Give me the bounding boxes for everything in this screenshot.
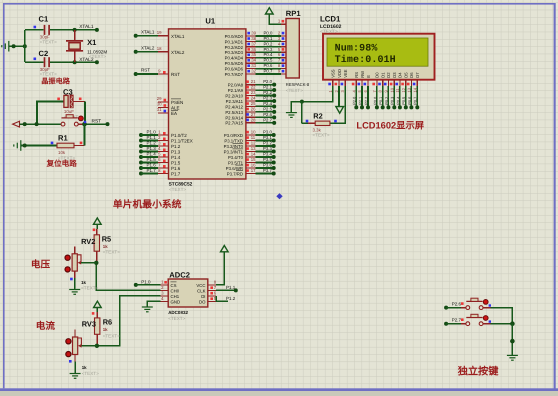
svg-text:R6: R6 (103, 317, 112, 326)
power terminal +5V (ADC VCC) (216, 246, 228, 285)
wire net P2.2 (256, 90, 277, 98)
svg-text:P1.2: P1.2 (171, 144, 181, 149)
svg-text:X1: X1 (87, 38, 97, 47)
wire net P2.1 (256, 85, 277, 93)
svg-text:RP1: RP1 (286, 9, 302, 18)
wire P0.1 to RP1 pin 3 (256, 36, 287, 42)
op-amp U1 body (STC89C52 MCU) (169, 17, 246, 193)
pin ADC CH0 (2) (161, 285, 180, 293)
svg-text:P0.2: P0.2 (385, 97, 389, 105)
wire LCD VEE to R2 (330, 86, 345, 123)
svg-text:18: 18 (157, 46, 162, 51)
svg-text:P2.1/A9: P2.1/A9 (228, 88, 244, 93)
svg-text:C1: C1 (39, 15, 49, 24)
svg-text:16: 16 (251, 163, 256, 168)
ground (RV3) (70, 362, 81, 379)
wire net P1.3 (139, 146, 158, 154)
pin ADC CLK (7) (197, 285, 217, 293)
svg-text:电流: 电流 (36, 320, 56, 332)
svg-text:14: 14 (251, 152, 256, 157)
wire LCD D7 net P0.7 (414, 86, 420, 109)
capacitor C2 (25, 49, 75, 76)
svg-text:E: E (366, 75, 371, 78)
wire LCD RS net P2.0 (353, 86, 359, 109)
wire net P2.6 (256, 112, 277, 120)
svg-text:P3.2/INT0: P3.2/INT0 (224, 144, 244, 149)
svg-text:D5: D5 (404, 72, 409, 78)
pin P3.5 (15) (228, 157, 256, 165)
pin LCD D6 (13) (406, 72, 414, 93)
svg-text:P2.2/A10: P2.2/A10 (225, 93, 243, 98)
svg-text:35: 35 (251, 52, 256, 57)
wire ADC CLK net P1.1 (216, 285, 238, 292)
svg-text:XTAL1: XTAL1 (171, 34, 185, 39)
resistor R2 (3.3k) (302, 102, 337, 138)
svg-text:单片机最小系统: 单片机最小系统 (113, 198, 182, 210)
svg-text:RESPACK-8: RESPACK-8 (286, 82, 310, 87)
svg-text:32: 32 (251, 69, 256, 74)
svg-text:12: 12 (251, 141, 256, 146)
pin ADC CH1 (3) (161, 291, 180, 299)
wire net P1.0 to ADC CS (134, 279, 167, 287)
wire P0.7 to RP1 pin 9 (256, 69, 287, 75)
wire net P1.6 (139, 162, 158, 170)
svg-text:P1.4: P1.4 (171, 155, 181, 160)
svg-text:P0.2: P0.2 (264, 41, 273, 46)
svg-text:P0.7/AD7: P0.7/AD7 (225, 72, 244, 77)
pin P0.2 (37) (225, 41, 257, 49)
svg-text:ADC0832: ADC0832 (168, 310, 188, 315)
pin P0.5 (34) (225, 58, 257, 66)
svg-text:P3.0: P3.0 (263, 130, 272, 135)
caption 电流 (36, 320, 56, 332)
wire net P2.7 (256, 117, 277, 125)
svg-text:<TEXT>: <TEXT> (81, 285, 98, 290)
pin RP1-1 (278, 19, 286, 25)
svg-text:晶振电路: 晶振电路 (41, 77, 71, 86)
pin ADC VCC (8) (196, 280, 216, 288)
pin P0.0 (39) (225, 31, 257, 39)
svg-text:28: 28 (251, 117, 256, 122)
wire CH0 from voltage divider (96, 263, 160, 291)
potentiometer RV2 (1k) (65, 237, 99, 290)
svg-text:<TEXT>: <TEXT> (320, 29, 338, 35)
svg-text:P3.1: P3.1 (263, 135, 272, 140)
pin P0.4 (35) (225, 52, 257, 60)
svg-text:<TEXT>: <TEXT> (313, 133, 330, 138)
svg-text:P3.5: P3.5 (263, 157, 272, 162)
crystal X1 (66, 30, 107, 62)
svg-text:P2.7: P2.7 (263, 117, 272, 122)
power terminal +5V (RP1) (266, 8, 282, 25)
svg-text:P0.0/AD0: P0.0/AD0 (225, 34, 244, 39)
svg-text:CH0: CH0 (171, 288, 180, 293)
svg-text:P0.1/AD1: P0.1/AD1 (225, 39, 244, 44)
svg-text:<TEXT>: <TEXT> (40, 39, 57, 44)
wire net P3.6 (256, 163, 276, 171)
chip ADC2 body (ADC0832) (168, 270, 208, 320)
svg-text:Num:98%: Num:98% (335, 43, 378, 54)
wire RST rail (20, 118, 110, 126)
svg-text:P2.7: P2.7 (452, 318, 462, 323)
wire net P2.4 (256, 101, 277, 109)
svg-text:P2.6: P2.6 (263, 112, 272, 117)
ground (buttons) (507, 355, 518, 360)
caption 独立按键 (457, 366, 500, 378)
svg-text:P1.2: P1.2 (226, 296, 236, 301)
svg-text:<TEXT>: <TEXT> (103, 334, 120, 339)
svg-text:P1.0: P1.0 (141, 279, 151, 284)
svg-text:LCD1602显示屏: LCD1602显示屏 (356, 120, 424, 130)
caption 晶振电路 (41, 77, 71, 86)
wire net P1.0 (139, 129, 158, 137)
pin ADC DO (5) (199, 296, 217, 304)
wire LCD D3 net P0.3 (391, 86, 397, 109)
svg-text:D7: D7 (415, 72, 420, 78)
svg-text:RS: RS (354, 72, 359, 78)
svg-text:LCD1: LCD1 (320, 15, 341, 24)
pin ADC DI (6) (201, 291, 217, 299)
resistor pack RP1 (RESPACK-8) (286, 9, 310, 93)
svg-text:GND: GND (171, 299, 181, 304)
pin RST (9) (158, 68, 180, 77)
svg-text:10uF: 10uF (64, 109, 74, 114)
ground (reset circuit) (14, 140, 27, 151)
svg-text:D6: D6 (409, 72, 414, 78)
svg-text:复位电路: 复位电路 (46, 159, 78, 168)
svg-text:P2.2: P2.2 (263, 90, 272, 95)
wire net P3.0 (256, 130, 276, 138)
svg-text:<TEXT>: <TEXT> (169, 187, 186, 192)
svg-text:P0.3: P0.3 (264, 47, 273, 52)
pin LCD D7 (14) (412, 72, 420, 93)
resistor R6 (1k) (95, 312, 121, 346)
pin P1.6 (7) (158, 162, 181, 171)
pin P1.1 (2) (158, 135, 193, 144)
pin LCD VEE (3) (340, 69, 348, 92)
svg-text:VDD: VDD (337, 69, 342, 78)
caption LCD1602显示屏 (356, 120, 424, 130)
pin P2.3 (24) (226, 95, 256, 103)
ground (ADC GND) (142, 301, 161, 311)
svg-text:P3.7: P3.7 (263, 168, 272, 173)
svg-text:LCD1602: LCD1602 (320, 24, 342, 30)
wire net P1.7 (139, 168, 158, 176)
svg-text:C2: C2 (39, 49, 49, 58)
wire LCD D2 net P0.2 (385, 86, 391, 109)
ground (RV2) (69, 278, 80, 294)
svg-text:1k: 1k (103, 244, 108, 249)
svg-text:P2.1: P2.1 (263, 85, 272, 90)
svg-text:P0.4: P0.4 (396, 97, 400, 105)
pin P2.1 (22) (228, 85, 256, 93)
svg-text:21: 21 (251, 79, 256, 84)
wire net P2.3 (256, 95, 277, 103)
svg-text:CS: CS (171, 283, 177, 288)
svg-text:P3.4/T0: P3.4/T0 (228, 155, 244, 160)
wire ADC DI/DO net P1.2 (216, 296, 236, 302)
origin marker (blue diamond) (276, 193, 282, 199)
wire CH1 from current divider (97, 296, 161, 346)
svg-text:P0.6: P0.6 (264, 63, 273, 68)
svg-text:VEE: VEE (343, 69, 348, 78)
svg-text:P0.7: P0.7 (414, 97, 418, 105)
svg-text:10: 10 (251, 130, 256, 135)
svg-text:P0.1: P0.1 (379, 97, 383, 105)
svg-text:26: 26 (251, 106, 256, 111)
svg-text:37: 37 (251, 41, 256, 46)
LCD display screen (327, 38, 428, 66)
svg-text:11: 11 (251, 135, 256, 140)
svg-text:30: 30 (157, 102, 162, 107)
pin LCD D3 (10) (389, 72, 397, 93)
pin PSEN (29) (157, 96, 184, 105)
svg-text:P2.1: P2.1 (358, 97, 362, 105)
svg-text:P0.6: P0.6 (408, 97, 412, 105)
pin P1.2 (3) (158, 140, 181, 149)
wire net P1.5 (139, 157, 158, 165)
svg-text:P2.7/A15: P2.7/A15 (225, 121, 243, 126)
svg-text:P2.0: P2.0 (353, 97, 357, 105)
wire P0.0 to RP1 pin 2 (256, 31, 287, 37)
pin P3.7 (17) (227, 168, 256, 176)
svg-text:23: 23 (251, 90, 256, 95)
wire net XTAL1 to U1 (134, 29, 158, 37)
wire LCD E net P2.2 (364, 86, 370, 109)
pin P1.0 (1) (158, 129, 187, 138)
wire P0.2 to RP1 pin 4 (256, 41, 287, 47)
pin P1.7 (8) (158, 168, 181, 177)
wire net P2.5 (256, 106, 277, 114)
svg-text:P0.2/AD2: P0.2/AD2 (225, 45, 244, 50)
svg-text:PSEN: PSEN (171, 100, 183, 105)
svg-text:P1.7: P1.7 (171, 172, 181, 177)
terminal arrow (reset) (13, 121, 20, 127)
pin LCD VSS (1) (328, 69, 336, 92)
pin P0.6 (33) (225, 63, 257, 71)
pin P1.3 (4) (158, 146, 181, 155)
svg-text:电压: 电压 (31, 258, 51, 270)
svg-text:13: 13 (251, 146, 256, 151)
svg-text:P2.6/A14: P2.6/A14 (225, 115, 243, 120)
svg-text:CLK: CLK (197, 288, 205, 293)
svg-text:3.3k: 3.3k (313, 127, 322, 132)
svg-text:P0.4: P0.4 (264, 52, 273, 57)
wire LCD D1 net P0.1 (379, 86, 385, 109)
svg-text:RW: RW (360, 71, 365, 78)
svg-text:U1: U1 (205, 17, 215, 26)
svg-text:P2.3: P2.3 (263, 95, 272, 100)
svg-text:P2.4/A12: P2.4/A12 (225, 104, 243, 109)
pin P2.7 (28) (225, 117, 256, 125)
wire P0.3 to RP1 pin 5 (256, 47, 287, 53)
pin XTAL2 (18) (157, 46, 185, 55)
svg-text:XTAL2: XTAL2 (171, 50, 185, 55)
pin P0.7 (32) (225, 69, 257, 77)
svg-text:P0.0: P0.0 (264, 31, 273, 36)
svg-text:ADC2: ADC2 (169, 270, 190, 279)
wire net P3.4 (256, 152, 276, 160)
pin LCD D0 (7) (372, 72, 380, 93)
wire LCD D4 net P0.4 (396, 86, 402, 109)
node R6/RV3 junction (95, 344, 99, 348)
pin P2.6 (27) (225, 112, 256, 120)
pin LCD D1 (8) (378, 72, 386, 93)
svg-text:P3.6: P3.6 (263, 163, 272, 168)
pin P3.6 (16) (226, 163, 256, 171)
wire gnd to C1/C2 rail (9, 30, 27, 62)
power terminal (LCD VDD) (336, 86, 344, 113)
svg-text:D4: D4 (398, 72, 403, 78)
pin P3.1 (11) (224, 135, 255, 143)
resistor R1 (10k) (25, 124, 85, 161)
svg-text:24: 24 (251, 95, 256, 100)
svg-text:P1.5: P1.5 (147, 157, 157, 162)
svg-text:P1.0/T2: P1.0/T2 (171, 133, 187, 138)
svg-text:P1.6: P1.6 (171, 166, 181, 171)
caption 电压 (31, 258, 51, 270)
pin XTAL1 (19) (157, 30, 185, 39)
svg-text:D0: D0 (375, 72, 380, 78)
svg-text:EA: EA (171, 111, 177, 116)
svg-text:CH1: CH1 (171, 294, 180, 299)
svg-text:10k: 10k (58, 150, 66, 155)
svg-text:22: 22 (251, 85, 256, 90)
svg-text:P2.0/A8: P2.0/A8 (228, 83, 244, 88)
svg-text:33: 33 (251, 63, 256, 68)
capacitor C1 (25, 15, 75, 45)
wire LCD D0 net P0.0 (373, 86, 379, 109)
svg-text:P0.3: P0.3 (391, 97, 395, 105)
svg-text:P0.6/AD6: P0.6/AD6 (225, 66, 244, 71)
pin ADC CS (1) (161, 280, 177, 288)
svg-text:<TEXT>: <TEXT> (168, 316, 185, 321)
svg-text:R1: R1 (58, 134, 68, 143)
svg-text:P0.5: P0.5 (264, 58, 273, 63)
wire LCD D6 net P0.6 (408, 86, 414, 109)
pin P2.4 (25) (225, 101, 256, 109)
svg-text:P1.6: P1.6 (147, 162, 157, 167)
wire net P2.6 (button 1) (444, 302, 466, 310)
svg-text:P2.3/A11: P2.3/A11 (226, 99, 244, 104)
svg-text:P2.2: P2.2 (364, 97, 368, 105)
capacitor C3 (10uF) (37, 87, 85, 124)
svg-text:RV2: RV2 (81, 237, 95, 246)
svg-text:DO: DO (199, 299, 206, 304)
svg-text:Time:0.01H: Time:0.01H (335, 54, 396, 66)
wire P0.6 to RP1 pin 8 (256, 63, 287, 69)
svg-text:P1.7: P1.7 (147, 168, 157, 173)
svg-text:38: 38 (251, 36, 256, 41)
svg-text:P0.7: P0.7 (264, 69, 273, 74)
power terminal +5V (R6) (92, 301, 101, 315)
ground (crystal circuit) (2, 41, 9, 52)
svg-text:31: 31 (157, 107, 162, 112)
node XTAL2 (crystal) (73, 57, 99, 64)
svg-text:P1.2: P1.2 (147, 140, 157, 145)
pin LCD VDD (2) (334, 69, 342, 93)
svg-text:P1.3: P1.3 (147, 146, 157, 151)
pin ADC GND (4) (161, 296, 181, 304)
pin P3.0 (10) (224, 130, 256, 138)
svg-text:P1.5: P1.5 (171, 161, 181, 166)
svg-text:R5: R5 (102, 234, 111, 243)
svg-text:P0.5: P0.5 (402, 97, 406, 105)
pin LCD D4 (11) (395, 72, 403, 93)
svg-text:XTAL1: XTAL1 (79, 24, 94, 30)
caption 单片机最小系统 (113, 198, 182, 210)
svg-text:P0.0: P0.0 (373, 97, 377, 105)
pin EA (31) (157, 107, 178, 116)
pin P0.1 (38) (225, 36, 257, 44)
svg-text:P3.7/RD: P3.7/RD (227, 171, 243, 176)
node R5/RV2 junction (94, 261, 98, 265)
svg-text:P2.5: P2.5 (263, 106, 272, 111)
pin LCD RS (4) (351, 72, 359, 93)
push button 1 (P2.6) (466, 298, 491, 309)
wire net P3.7 (256, 168, 276, 176)
svg-text:D1: D1 (381, 72, 386, 78)
svg-text:VCC: VCC (196, 283, 205, 288)
svg-text:25: 25 (251, 101, 256, 106)
svg-text:P1.3: P1.3 (171, 150, 181, 155)
svg-text:R2: R2 (313, 112, 322, 121)
wire net P1.4 (139, 151, 158, 159)
svg-text:P1.1: P1.1 (226, 285, 236, 290)
svg-text:17: 17 (251, 168, 256, 173)
svg-text:P1.1: P1.1 (147, 135, 157, 140)
wire P0.5 to RP1 pin 7 (256, 58, 287, 64)
wire button2 to ground rail (491, 321, 515, 355)
wire net P3.5 (256, 157, 276, 165)
svg-text:P2.5/A13: P2.5/A13 (225, 110, 243, 115)
pin LCD D2 (9) (383, 72, 391, 93)
pin P2.2 (23) (225, 90, 256, 98)
wire LCD VSS to ground (300, 86, 333, 104)
wire net XTAL2 to U1 (134, 45, 158, 53)
wire net P1.2 (139, 140, 158, 148)
svg-text:P3.0/RXD: P3.0/RXD (224, 133, 243, 138)
svg-text:15: 15 (251, 157, 256, 162)
svg-text:19: 19 (157, 30, 162, 35)
node XTAL1 (crystal) (73, 24, 99, 32)
resistor R5 (1k) (94, 229, 120, 263)
wire net P3.1 (256, 135, 276, 143)
svg-text:VSS: VSS (331, 69, 336, 78)
svg-text:<TEXT>: <TEXT> (82, 371, 99, 376)
power terminal +5V (R5) (93, 218, 101, 231)
svg-text:P3.2: P3.2 (263, 141, 272, 146)
caption 复位电路 (46, 159, 78, 168)
pin P1.5 (6) (158, 157, 181, 166)
ground (LCD VSS) (286, 102, 302, 118)
svg-text:RST: RST (92, 118, 102, 124)
svg-text:P1.4: P1.4 (147, 151, 157, 156)
wire net P2.0 (256, 79, 277, 87)
svg-text:XTAL2: XTAL2 (141, 45, 155, 50)
wire net RST to U1 (134, 68, 158, 76)
wire net P2.7 (button 2) (444, 318, 466, 326)
pin P1.4 (5) (158, 151, 181, 160)
svg-text:XTAL1: XTAL1 (141, 29, 155, 34)
wire P0.4 to RP1 pin 6 (256, 52, 287, 58)
svg-text:36: 36 (251, 47, 256, 52)
svg-text:<TEXT>: <TEXT> (286, 88, 303, 93)
svg-text:1k: 1k (103, 327, 108, 332)
svg-text:P3.6/WR: P3.6/WR (226, 166, 243, 171)
svg-text:P3.1/TXD: P3.1/TXD (224, 138, 243, 143)
wire LCD D5 net P0.5 (402, 86, 408, 109)
